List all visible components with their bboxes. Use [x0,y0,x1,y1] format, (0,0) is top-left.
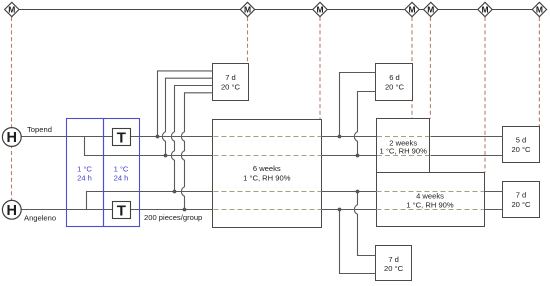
box 5d/20C [503,127,540,163]
svg-text:Angeleno: Angeleno [24,213,56,222]
svg-text:24 h: 24 h [114,173,129,182]
measurement symbol M1 [5,2,19,16]
svg-text:7 d: 7 d [516,191,527,200]
measurement symbol M7 [532,2,546,16]
box 4 weeks storage [377,173,485,227]
measurement dashed line from M3 [319,17,321,120]
wire r2 from line2 up to 6d box with hop over line1 [354,92,375,156]
harvest symbol H Topend [2,128,21,147]
storage dashed line 3 inside 6-week box [213,191,321,193]
measurement symbol M5 [424,2,438,16]
svg-text:T: T [117,129,126,146]
svg-text:5 d: 5 d [516,136,527,145]
junction node on line4 left [183,208,187,212]
wire r1 from line1 up to 6d box [340,73,376,137]
junction node on line1 left [156,135,160,139]
junction node on line4 right [338,208,342,212]
svg-text:M: M [244,5,251,15]
box 7d/20C right [503,182,540,218]
svg-text:M: M [536,5,543,15]
T sensor box 1 [113,129,131,147]
wire line4 4-week box to right 7d box [485,209,503,211]
svg-text:T: T [117,202,126,219]
svg-text:6 d: 6 d [389,73,400,82]
box 6 weeks storage [213,120,322,228]
svg-text:200 pieces/group: 200 pieces/group [144,213,202,222]
svg-text:7 d: 7 d [388,255,399,264]
svg-text:20 °C: 20 °C [385,83,405,92]
wire line1 Topend to 6-week box [21,136,213,138]
measurement dashed line from M1 [11,17,13,200]
box 7d/20C bottom [376,246,412,281]
wire line2 branch down from line1 [85,137,213,156]
svg-text:H: H [7,203,17,219]
wire line3 between 6-week and 4-week boxes [322,191,377,193]
wire line4 Angeleno to 6-week box [21,209,213,211]
treatment blue box left cell [67,119,104,227]
junction node on line1 right [338,135,342,139]
wire line2 between 6-week and 2-week boxes [322,155,377,157]
wire line3 branch up from line4 [87,192,213,210]
svg-text:1 °C, RH 90%: 1 °C, RH 90% [406,200,454,209]
wire r4 from line4 down to bottom 7d box [340,210,376,274]
wire line2 2-week box to 5d box [431,155,503,157]
T sensor box 2 [113,202,131,220]
measurement dashed line from M6 [484,17,486,173]
storage dashed line 4 inside 6-week box [213,209,321,211]
measurement dashed line from M5 [429,17,431,119]
measurement dashed line from M2 [247,17,249,64]
measurement dashed line from M7 [538,17,540,126]
wire v2 from line2 up to top 7d box with hop over line1 [162,78,212,155]
box 2 weeks storage [377,119,430,173]
svg-text:M: M [316,5,323,15]
svg-text:20 °C: 20 °C [221,83,241,92]
storage dashed line 3 inside 4-week box [377,191,484,193]
junction node on line3 left [173,190,177,194]
svg-text:1 °C: 1 °C [77,165,92,174]
junction node on line2 left [164,154,168,158]
storage dashed line 1 inside 2-week box [377,136,429,138]
junction node on line3 right [356,190,360,194]
svg-text:M: M [8,5,15,15]
measurement symbol M3 [313,2,327,16]
wire line3 4-week box to right 7d box [485,191,503,193]
measurement symbol M6 [478,2,492,16]
svg-text:M: M [408,5,415,15]
measurement symbol M4 [405,2,419,16]
svg-text:7 d: 7 d [225,73,236,82]
treatment blue box right cell [104,119,140,227]
svg-text:H: H [7,130,17,146]
wire line1 2-week box to 5d box [431,136,503,138]
storage dashed line 2 inside 2-week box [377,155,429,157]
harvest symbol H Angeleno [2,200,21,219]
svg-text:1 °C, RH 90%: 1 °C, RH 90% [243,173,291,182]
measurement symbol M2 [240,2,254,16]
wire line4 between 6-week and 4-week boxes [322,209,377,211]
svg-text:1 °C, RH 90%: 1 °C, RH 90% [380,146,428,155]
storage dashed line 1 inside 6-week box [213,136,321,138]
svg-text:24 h: 24 h [77,173,92,182]
svg-text:20 °C: 20 °C [511,145,531,154]
wire r3 from line3 down to bottom 7d box with hop over line4 [354,192,375,256]
storage dashed line 2 inside 6-week box [213,155,321,157]
svg-text:20 °C: 20 °C [384,264,404,273]
wire v1 from line1 up to top 7d box [158,71,213,137]
measurement dashed line from M4 [411,17,413,119]
wire line1 between 6-week and 2-week boxes [322,136,377,138]
svg-text:M: M [481,5,488,15]
top manifold wire [12,9,540,11]
svg-text:M: M [427,5,434,15]
wire v4 from line4 up to top 7d box with hops over line3 line2 line1 [181,93,212,210]
wire v3 from line3 up to top 7d box with hops over line2 and line1 [171,86,212,192]
junction node on line2 right [356,154,360,158]
svg-text:Topend: Topend [27,125,52,134]
svg-text:6 weeks: 6 weeks [253,164,281,173]
svg-text:20 °C: 20 °C [511,200,531,209]
storage dashed line 4 inside 4-week box [377,209,484,211]
box 6d/20C [376,64,413,101]
svg-text:1 °C: 1 °C [114,165,129,174]
box 7d/20C top [213,64,249,101]
